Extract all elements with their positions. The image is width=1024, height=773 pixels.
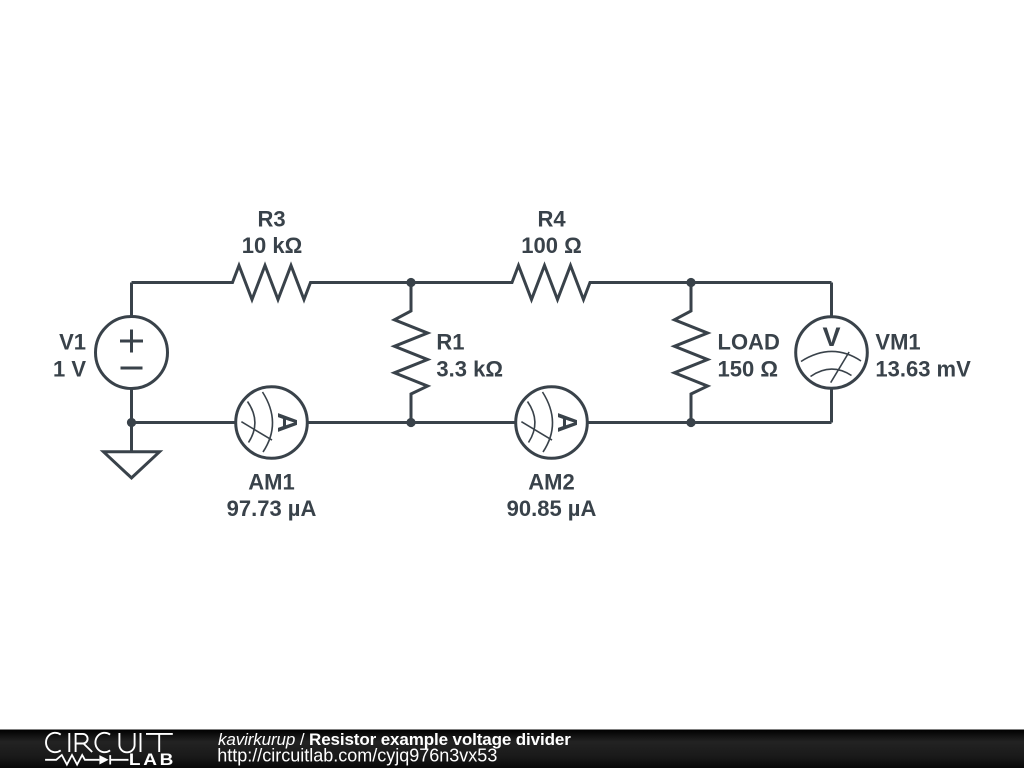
- svg-text:LOAD: LOAD: [718, 330, 780, 355]
- svg-text:3.3 kΩ: 3.3 kΩ: [436, 357, 503, 382]
- svg-text:R1: R1: [436, 330, 464, 355]
- svg-text:A: A: [272, 412, 303, 432]
- svg-text:AM2: AM2: [528, 469, 574, 494]
- svg-text:A: A: [552, 412, 583, 432]
- svg-text:100 Ω: 100 Ω: [521, 233, 581, 258]
- svg-text:V: V: [822, 322, 840, 352]
- svg-text:10 kΩ: 10 kΩ: [242, 233, 302, 258]
- svg-text:1 V: 1 V: [53, 357, 86, 382]
- svg-text:AM1: AM1: [248, 469, 294, 494]
- svg-text:90.85 µA: 90.85 µA: [507, 496, 597, 521]
- svg-text:150 Ω: 150 Ω: [718, 357, 778, 382]
- svg-text:http://circuitlab.com/cyjq976n: http://circuitlab.com/cyjq976n3vx53: [217, 745, 497, 765]
- svg-text:VM1: VM1: [875, 330, 920, 355]
- svg-text:13.63 mV: 13.63 mV: [875, 357, 971, 382]
- svg-text:97.73 µA: 97.73 µA: [227, 496, 317, 521]
- svg-text:LAB: LAB: [129, 750, 176, 768]
- svg-text:V1: V1: [59, 330, 86, 355]
- svg-text:R4: R4: [537, 206, 566, 231]
- svg-text:R3: R3: [257, 206, 285, 231]
